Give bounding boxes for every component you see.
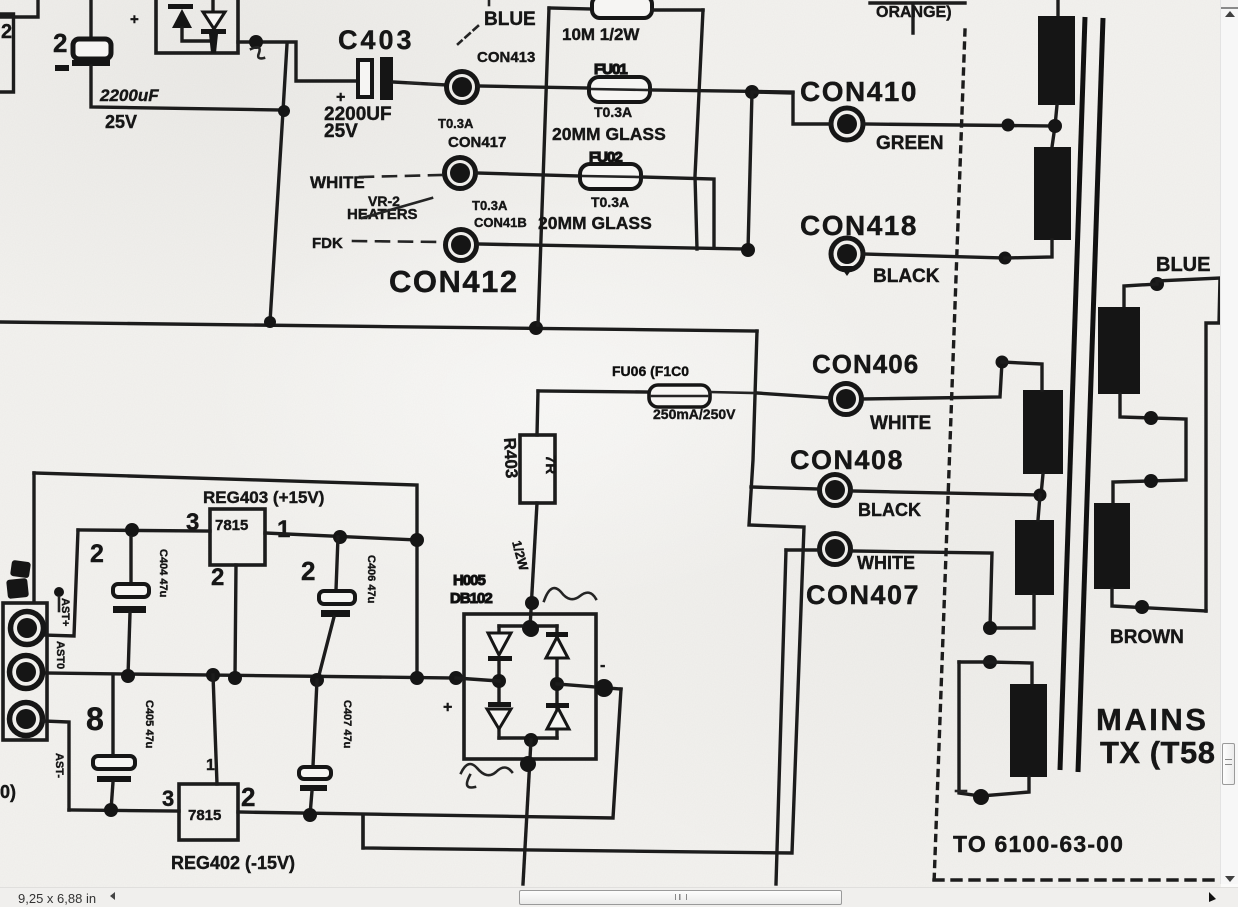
svg-text:CON412: CON412 [389, 264, 519, 299]
svg-text:WHITE: WHITE [870, 413, 931, 434]
svg-text:MAINS: MAINS [1096, 702, 1208, 737]
svg-text:FDK: FDK [312, 235, 343, 252]
svg-text:T0.3A: T0.3A [472, 198, 508, 213]
svg-text:7815: 7815 [188, 807, 221, 824]
svg-text:T0.3A: T0.3A [591, 194, 629, 210]
svg-text:20MM GLASS: 20MM GLASS [538, 213, 652, 233]
svg-text:CON406: CON406 [812, 349, 919, 379]
svg-text:CON410: CON410 [800, 76, 918, 107]
svg-text:DB102: DB102 [450, 590, 492, 607]
svg-text:C403: C403 [338, 25, 415, 55]
svg-text:BLACK: BLACK [873, 266, 940, 287]
svg-text:AST0: AST0 [54, 641, 66, 669]
svg-text:T0.3A: T0.3A [438, 116, 474, 131]
svg-text:0): 0) [0, 782, 16, 802]
svg-text:C405 47u: C405 47u [143, 700, 155, 748]
svg-text:CON413: CON413 [477, 49, 535, 66]
svg-text:25V: 25V [324, 121, 358, 142]
svg-text:WHITE: WHITE [857, 553, 915, 573]
svg-text:25V: 25V [105, 112, 137, 132]
svg-text:+: + [130, 11, 139, 28]
svg-text:BROWN: BROWN [1110, 627, 1184, 648]
svg-text:AST+: AST+ [59, 598, 71, 626]
svg-text:2200uF: 2200uF [99, 86, 159, 105]
svg-text:BLUE: BLUE [484, 9, 536, 30]
svg-text:BLACK: BLACK [858, 500, 921, 520]
svg-text:T0.3A: T0.3A [594, 104, 632, 120]
svg-text:GREEN: GREEN [876, 133, 944, 154]
svg-text:2: 2 [241, 782, 255, 812]
svg-text:C404 47u: C404 47u [157, 549, 169, 597]
svg-text:CON41B: CON41B [474, 215, 527, 230]
svg-text:REG403 (+15V): REG403 (+15V) [203, 488, 324, 507]
svg-text:REG402 (-15V): REG402 (-15V) [171, 853, 295, 873]
svg-text:7R: 7R [542, 455, 559, 474]
svg-text:+: + [443, 699, 452, 716]
svg-text:20MM GLASS: 20MM GLASS [552, 124, 666, 144]
svg-text:2: 2 [90, 540, 104, 568]
svg-text:H005: H005 [453, 572, 486, 589]
svg-text:C407 47u: C407 47u [341, 700, 353, 748]
svg-text:8: 8 [86, 701, 104, 737]
svg-text:C406 47u: C406 47u [365, 555, 377, 603]
svg-text:AST-: AST- [53, 753, 65, 778]
svg-text:1: 1 [206, 757, 215, 774]
svg-text:1: 1 [277, 516, 290, 543]
svg-text:3: 3 [162, 786, 174, 811]
svg-text:-: - [600, 657, 605, 674]
svg-text:TO 6100-63-00: TO 6100-63-00 [953, 831, 1124, 857]
svg-text:HEATERS: HEATERS [347, 206, 418, 223]
svg-text:2: 2 [1, 21, 12, 43]
svg-text:TX (T58: TX (T58 [1100, 735, 1215, 770]
svg-text:FU06 (F1C0: FU06 (F1C0 [612, 363, 689, 379]
svg-text:ORANGE): ORANGE) [876, 4, 952, 21]
svg-text:R403: R403 [500, 437, 521, 479]
svg-text:2: 2 [211, 564, 224, 591]
svg-text:250mA/250V: 250mA/250V [653, 406, 736, 422]
svg-text:WHITE: WHITE [310, 173, 365, 192]
svg-text:CON417: CON417 [448, 134, 506, 151]
svg-text:CON418: CON418 [800, 210, 918, 241]
svg-text:2: 2 [301, 556, 315, 586]
svg-text:BLUE: BLUE [1156, 254, 1210, 276]
svg-text:7815: 7815 [215, 517, 248, 534]
svg-text:2: 2 [53, 28, 67, 58]
svg-text:10M 1/2W: 10M 1/2W [562, 25, 640, 44]
svg-text:CON407: CON407 [806, 580, 920, 610]
svg-text:CON408: CON408 [790, 445, 904, 475]
